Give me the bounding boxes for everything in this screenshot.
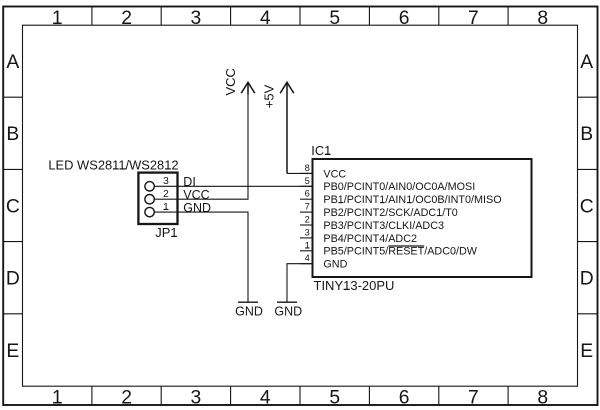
svg-text:B: B <box>580 124 593 145</box>
svg-text:3: 3 <box>163 175 169 187</box>
svg-text:C: C <box>6 196 20 217</box>
frame row dividers right <box>578 97 598 314</box>
svg-text:1: 1 <box>163 201 169 213</box>
svg-text:1: 1 <box>305 240 310 250</box>
svg-text:PB4/PCINT4/ADC2: PB4/PCINT4/ADC2 <box>323 233 417 245</box>
JP1 name digit 1 foot <box>171 235 177 237</box>
svg-text:3: 3 <box>305 227 310 237</box>
frame row dividers left <box>3 97 22 314</box>
svg-text:B: B <box>6 124 19 145</box>
IC1 pin stub 8 <box>300 172 313 174</box>
svg-text:PB0/PCINT0/AIN0/OC0A/MOSI: PB0/PCINT0/AIN0/OC0A/MOSI <box>323 181 475 193</box>
svg-text:DI: DI <box>183 175 196 189</box>
IC1 pin number 1 foot <box>305 247 309 249</box>
svg-text:7: 7 <box>468 387 479 408</box>
IC1 pin stub 7 <box>300 211 313 213</box>
svg-text:5: 5 <box>329 387 340 408</box>
svg-text:8: 8 <box>305 163 310 173</box>
svg-text:VCC: VCC <box>323 168 346 180</box>
wire DI from JP1 pin 3 to IC1 pin 5 <box>178 185 313 187</box>
svg-text:2: 2 <box>121 387 132 408</box>
connector JP1 pin number 1 foot <box>164 208 169 210</box>
IC1 body <box>313 159 532 277</box>
svg-text:C: C <box>580 196 594 217</box>
footed digit-1 bars in IC1 pin labels <box>339 203 442 216</box>
frame row letters left <box>6 52 20 362</box>
footed digit-1 bars in LED WS2811/WS2812 <box>113 168 171 170</box>
svg-text:6: 6 <box>399 387 410 408</box>
svg-text:D: D <box>580 269 594 290</box>
svg-text:TINY13-20PU: TINY13-20PU <box>314 278 395 293</box>
IC1 RESET overline <box>389 245 425 247</box>
svg-text:IC1: IC1 <box>311 143 331 158</box>
IC1 pin stub 4 <box>300 263 313 265</box>
svg-text:PB5/PCINT5/RESET/ADC0/DW: PB5/PCINT5/RESET/ADC0/DW <box>323 246 477 258</box>
frame column dividers bottom <box>92 386 508 405</box>
svg-text:5: 5 <box>305 176 310 186</box>
ground symbol GND left <box>238 301 258 303</box>
supply symbol +5V arrow <box>280 82 294 173</box>
svg-text:8: 8 <box>537 8 548 29</box>
svg-text:6: 6 <box>305 189 310 199</box>
svg-text:D: D <box>6 269 20 290</box>
svg-text:GND: GND <box>235 304 263 318</box>
connector JP1 body <box>138 173 177 224</box>
svg-text:A: A <box>580 52 593 73</box>
svg-text:2: 2 <box>163 188 169 200</box>
svg-text:A: A <box>6 52 19 73</box>
svg-text:PB3/PCINT3/CLKI/ADC3: PB3/PCINT3/CLKI/ADC3 <box>323 220 444 232</box>
svg-text:7: 7 <box>468 8 479 29</box>
svg-text:+5V: +5V <box>262 84 277 108</box>
connector JP1 pin line 2 <box>154 198 177 200</box>
supply symbol VCC arrow <box>241 82 255 94</box>
svg-text:1: 1 <box>52 8 63 29</box>
svg-text:GND: GND <box>274 304 302 318</box>
connector JP1 pin circle 3 <box>145 182 154 191</box>
wire VCC from JP1 pin 2 up to VCC supply <box>178 95 249 200</box>
frame column numbers top <box>52 8 548 29</box>
svg-text:VCC: VCC <box>183 188 209 202</box>
svg-text:VCC: VCC <box>223 68 238 95</box>
IC1 pin stub 5 <box>300 185 313 187</box>
IC1 pin stub 6 <box>300 198 313 200</box>
IC1 pin stub 3 <box>300 237 313 239</box>
svg-text:4: 4 <box>260 8 271 29</box>
svg-text:8: 8 <box>537 387 548 408</box>
connector JP1 pin circle 1 <box>145 207 154 216</box>
frame digit 1 foot bars <box>53 23 61 402</box>
IC1 pin stub 2 <box>300 224 313 226</box>
connector JP1 pin circle 2 <box>145 195 154 204</box>
wire from +5V supply to IC1 pin 8 <box>287 172 313 174</box>
svg-text:JP1: JP1 <box>155 225 177 240</box>
frame row letters right <box>580 52 594 362</box>
frame column numbers bottom <box>52 387 548 408</box>
svg-text:PB2/PCINT2/SCK/ADC1/T0: PB2/PCINT2/SCK/ADC1/T0 <box>323 207 457 219</box>
svg-text:4: 4 <box>260 387 271 408</box>
svg-text:E: E <box>580 341 593 362</box>
svg-text:3: 3 <box>191 387 202 408</box>
connector JP1 pin line 3 <box>154 185 177 187</box>
frame column dividers top <box>92 7 508 26</box>
IC1 pin stub 1 <box>300 250 313 252</box>
svg-text:E: E <box>6 341 19 362</box>
svg-text:LED WS2811/WS2812: LED WS2811/WS2812 <box>48 158 178 173</box>
svg-text:GND: GND <box>183 201 211 215</box>
ground symbol GND right <box>277 264 313 303</box>
IC1 name digit 1 foot <box>325 153 330 155</box>
svg-text:1: 1 <box>52 387 63 408</box>
svg-text:2: 2 <box>305 215 310 225</box>
svg-text:6: 6 <box>399 8 410 29</box>
svg-text:GND: GND <box>323 259 347 271</box>
svg-text:PB1/PCINT1/AIN1/OC0B/INT0/MISO: PB1/PCINT1/AIN1/OC0B/INT0/MISO <box>323 194 501 206</box>
wire GND from JP1 pin 1 down to ground <box>178 212 249 302</box>
svg-text:5: 5 <box>329 8 340 29</box>
svg-text:3: 3 <box>191 8 202 29</box>
svg-text:4: 4 <box>305 253 310 263</box>
TINY13 digit 1 foot <box>344 288 350 290</box>
svg-text:7: 7 <box>305 202 310 212</box>
connector JP1 pin line 1 <box>154 211 177 213</box>
svg-text:2: 2 <box>121 8 132 29</box>
